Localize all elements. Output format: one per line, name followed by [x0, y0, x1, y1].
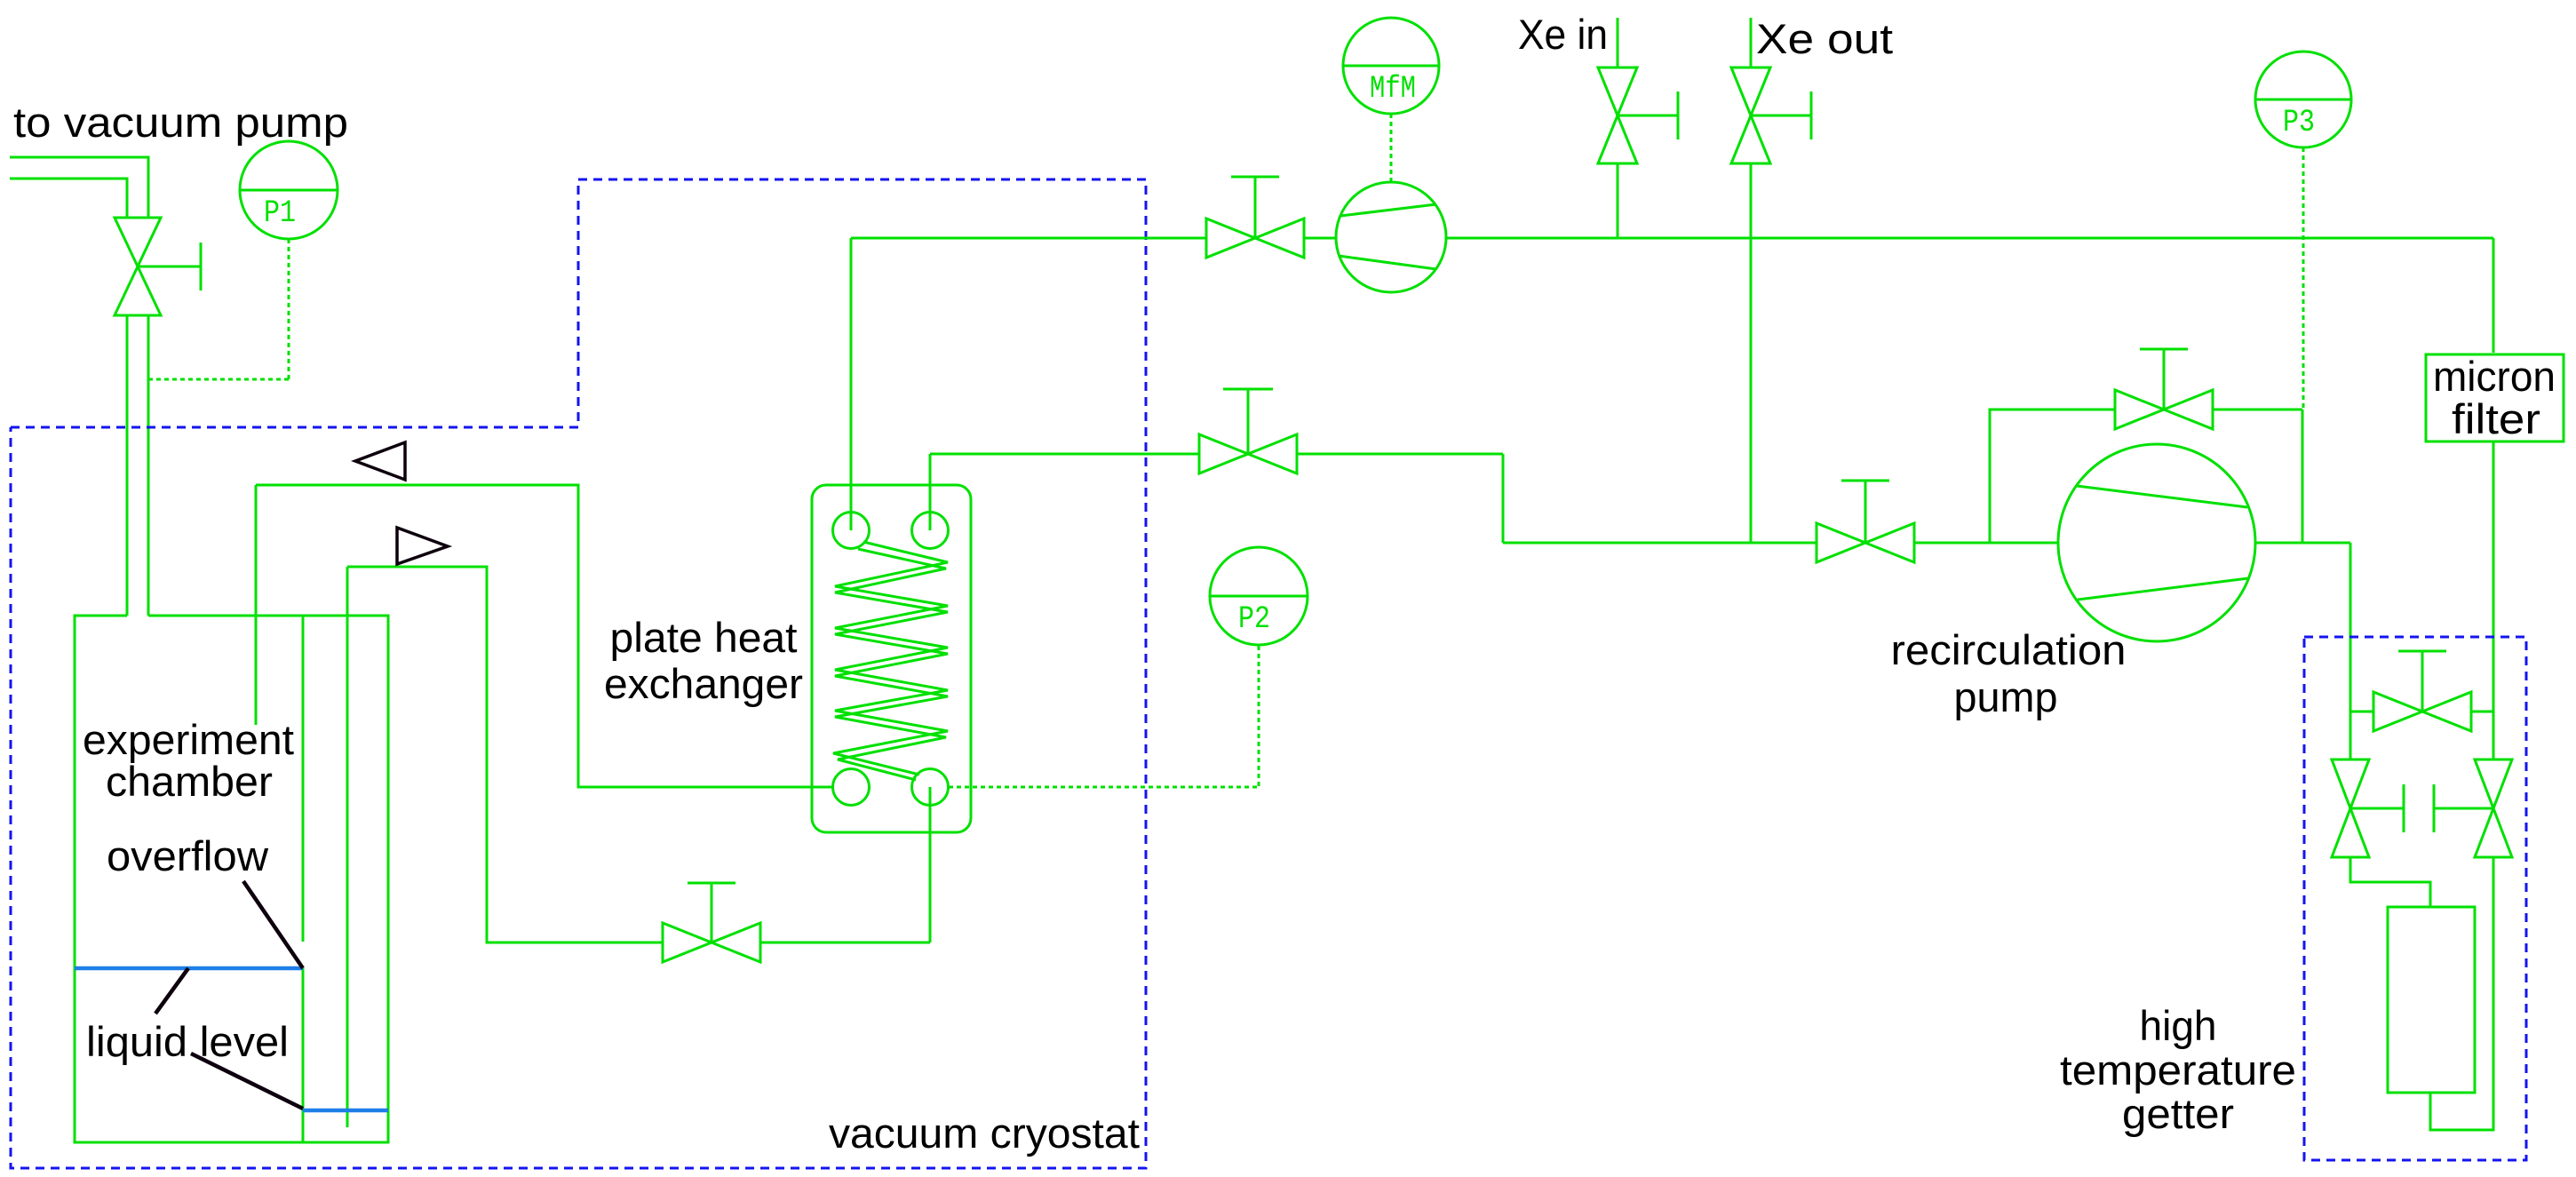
- return line HX to chamber: [256, 485, 833, 787]
- P2 sensing line (dashed): [949, 646, 1259, 787]
- P1 sensing line (dashed): [148, 239, 289, 379]
- pipe to vacuum pump (double line): [10, 157, 148, 616]
- label: experiment chamber: [83, 716, 294, 805]
- fill tube into chamber: [255, 485, 258, 725]
- supply line chamber to HX: [347, 567, 930, 942]
- vacuum cryostat boundary (blue dashed): [11, 179, 1146, 1168]
- label: vacuum cryostat: [829, 1109, 1140, 1157]
- overflow tube: [346, 567, 349, 1127]
- svg-text:Xe out: Xe out: [1756, 15, 1893, 62]
- HX coil zigzag (outer): [833, 542, 948, 775]
- plate heat exchanger body: [812, 485, 971, 832]
- getter inlet piping: [2350, 857, 2430, 907]
- P3 sensing line (dashed): [2302, 147, 2305, 410]
- HX port bottom-right: [912, 769, 949, 806]
- svg-text:filter: filter: [2452, 395, 2540, 442]
- high temperature getter boundary (blue dashed): [2304, 637, 2526, 1160]
- label: recirculation pump: [1891, 626, 2127, 720]
- HX coil zigzag (inner): [835, 549, 948, 780]
- gas line 1 (top main line): [851, 238, 2493, 353]
- chamber inner wall (lower): [302, 968, 305, 1142]
- flow arrow (right, supply line): [397, 528, 448, 564]
- label: Xe out: [1756, 15, 1893, 62]
- label: Xe in: [1518, 11, 1608, 58]
- valve V1 (vacuum pump line): [115, 218, 201, 315]
- svg-text:P2: P2: [1238, 601, 1270, 637]
- getter cartridge: [2388, 907, 2475, 1093]
- valve V2 (gas line 2): [1199, 389, 1297, 473]
- recirculation pump body: [2058, 444, 2255, 641]
- svg-text:P3: P3: [2283, 105, 2315, 140]
- leader line: overflow: [243, 881, 303, 968]
- pressure gauge P1: [240, 141, 338, 239]
- svg-text:vacuum cryostat: vacuum cryostat: [829, 1109, 1140, 1157]
- valve V11 (getter outlet): [2475, 759, 2512, 857]
- svg-text:overflow: overflow: [107, 832, 269, 879]
- label: high temperature getter: [2060, 1002, 2296, 1137]
- flow arrow (left, return line): [355, 442, 405, 480]
- HX port bottom-left: [833, 769, 870, 806]
- svg-text:P1: P1: [264, 195, 296, 231]
- micron filter box: [2426, 354, 2564, 441]
- mass flow meter body: [1336, 182, 1446, 292]
- getter bypass stubs: [2350, 711, 2493, 713]
- gas line 2 (HX to pump): [930, 454, 1503, 543]
- label: liquid level: [86, 1018, 289, 1065]
- label: micron filter: [2433, 353, 2556, 442]
- getter outlet piping: [2430, 857, 2493, 1130]
- svg-text:Xe in: Xe in: [1518, 11, 1608, 58]
- getter inlet drop: [2349, 712, 2352, 759]
- experiment chamber vessel: [75, 616, 388, 1142]
- leader line: liquid level to overflow level: [191, 1054, 303, 1109]
- valve V10 (getter inlet): [2332, 759, 2369, 857]
- MfM sensing line (dashed): [1390, 114, 1393, 182]
- Xe in line: [1617, 18, 1619, 238]
- label: overflow: [107, 832, 269, 879]
- pump outlet line: [2255, 543, 2350, 712]
- svg-text:high: high: [2140, 1002, 2217, 1049]
- svg-text:exchanger: exchanger: [604, 660, 803, 707]
- valve V7 (pump bypass): [2115, 349, 2213, 429]
- svg-text:pump: pump: [1954, 673, 2058, 720]
- chamber inner wall (upper): [302, 616, 305, 942]
- HX port top-left: [833, 513, 870, 549]
- valve V9 (getter bypass): [2373, 651, 2471, 731]
- label: plate heat exchanger: [604, 614, 803, 707]
- liquid level line (main): [75, 966, 303, 971]
- valve V3 (pump suction): [1817, 481, 1914, 562]
- micron filter outlet line: [2493, 442, 2495, 759]
- valve V5 (Xe in): [1598, 68, 1678, 163]
- svg-text:to vacuum pump: to vacuum pump: [13, 99, 348, 146]
- leader line: liquid level to main level: [155, 968, 188, 1014]
- svg-text:recirculation: recirculation: [1891, 626, 2127, 673]
- pump bypass line: [1990, 410, 2302, 543]
- svg-text:temperature: temperature: [2060, 1046, 2296, 1093]
- gasket link between getter valves: [2350, 784, 2493, 832]
- svg-text:experiment: experiment: [83, 716, 294, 763]
- liquid level line (overflow side): [303, 1109, 388, 1113]
- HX top-left riser: [850, 238, 853, 530]
- HX top-right riser: [929, 454, 932, 530]
- svg-text:liquid level: liquid level: [86, 1018, 289, 1065]
- valve V8 (HX drain line): [663, 883, 760, 962]
- pressure gauge P3: [2255, 52, 2351, 147]
- svg-text:micron: micron: [2433, 353, 2556, 400]
- pressure gauge P2: [1210, 547, 1308, 645]
- svg-text:chamber: chamber: [106, 758, 273, 805]
- valve V6 (Xe out): [1731, 68, 1811, 163]
- svg-text:MfM: MfM: [1370, 71, 1416, 107]
- label: to vacuum pump: [13, 99, 348, 146]
- valve V4 (top line): [1206, 177, 1304, 258]
- gas line 3 (to recirculation pump): [1503, 542, 2058, 545]
- gauge MfM: [1343, 18, 1439, 114]
- HX port top-right: [912, 513, 949, 549]
- svg-text:getter: getter: [2122, 1090, 2234, 1137]
- svg-text:plate heat: plate heat: [610, 614, 798, 661]
- Xe out line: [1750, 18, 1753, 543]
